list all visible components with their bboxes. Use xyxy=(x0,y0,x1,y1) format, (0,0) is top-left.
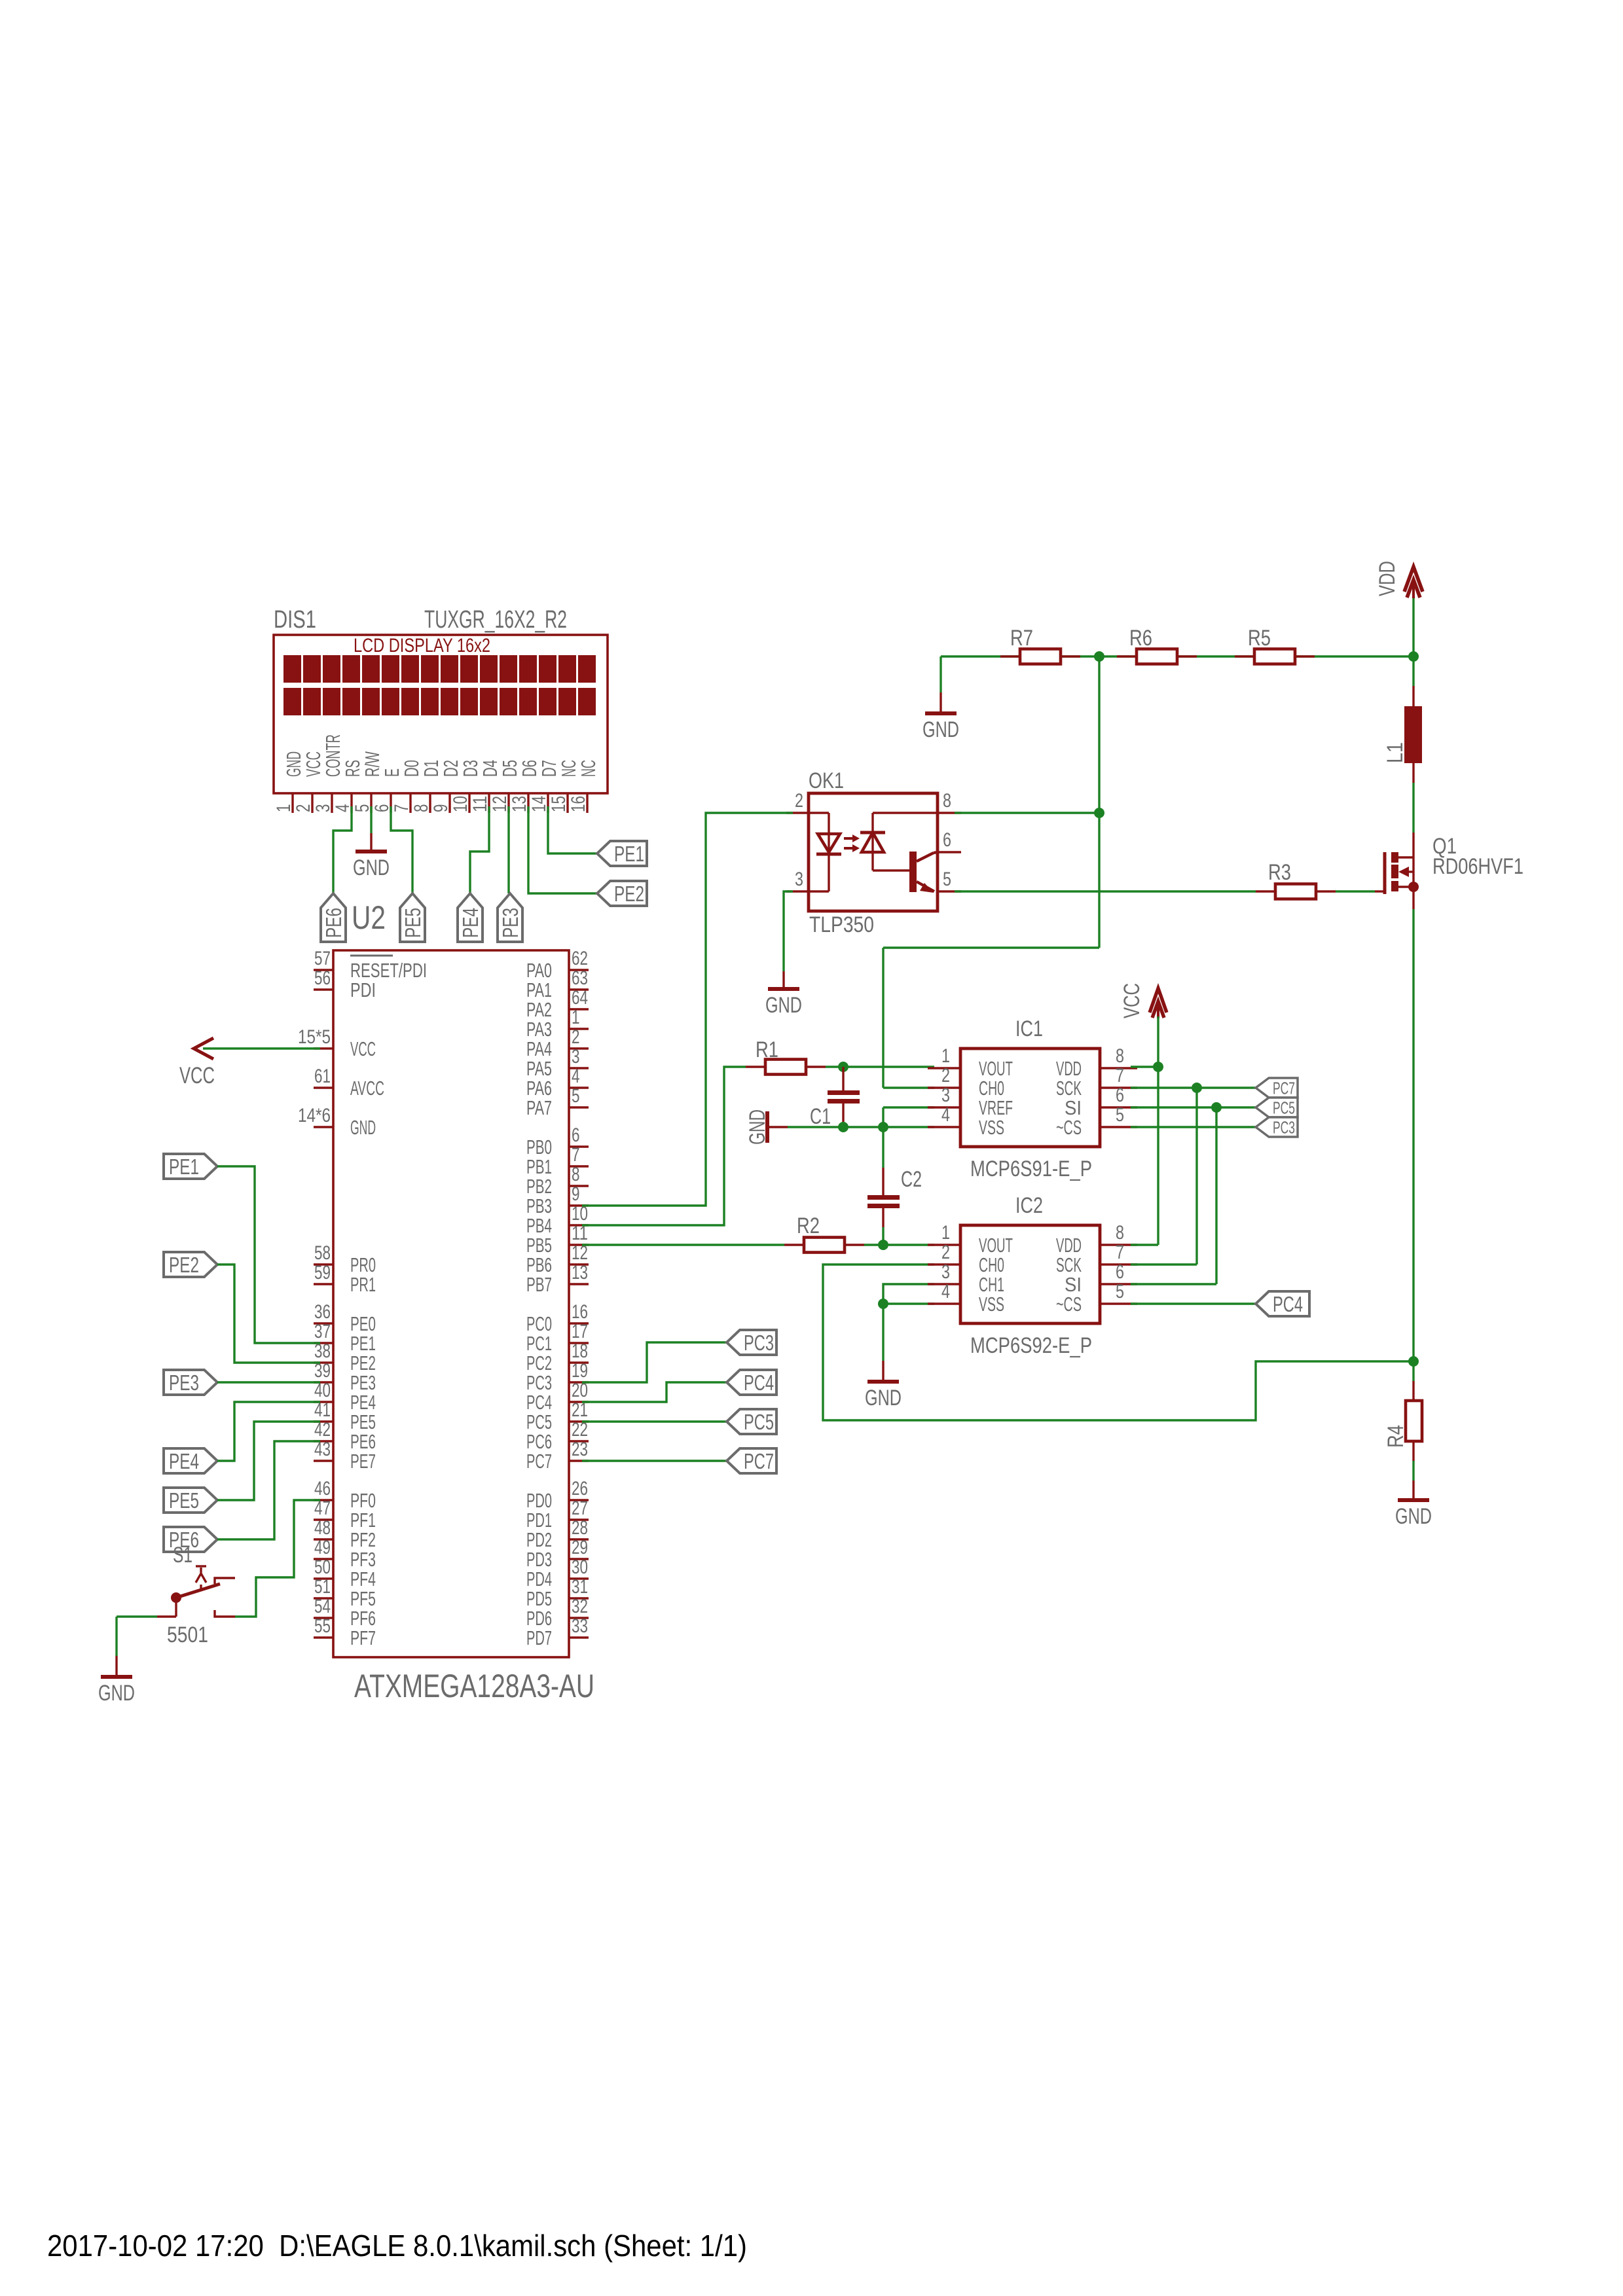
svg-text:R5: R5 xyxy=(1248,626,1271,651)
svg-text:8: 8 xyxy=(572,1164,580,1185)
svg-text:2: 2 xyxy=(293,804,314,813)
svg-text:2: 2 xyxy=(572,1026,580,1048)
svg-text:DIS1: DIS1 xyxy=(274,606,316,634)
svg-text:5: 5 xyxy=(572,1085,580,1107)
svg-text:S1: S1 xyxy=(173,1543,192,1568)
svg-text:TLP350: TLP350 xyxy=(809,912,874,937)
svg-text:49: 49 xyxy=(314,1537,331,1558)
svg-text:7: 7 xyxy=(572,1144,580,1166)
svg-text:GND: GND xyxy=(350,1116,376,1139)
svg-text:PE4: PE4 xyxy=(169,1449,199,1473)
svg-text:OK1: OK1 xyxy=(809,768,844,793)
svg-text:4: 4 xyxy=(941,1281,950,1302)
svg-text:PC7: PC7 xyxy=(526,1450,552,1473)
svg-text:54: 54 xyxy=(314,1596,331,1617)
svg-text:5: 5 xyxy=(1116,1104,1124,1126)
svg-text:6: 6 xyxy=(943,829,951,851)
svg-text:29: 29 xyxy=(572,1537,588,1558)
svg-text:62: 62 xyxy=(572,948,588,969)
svg-text:PE5: PE5 xyxy=(401,908,425,938)
svg-text:VCC: VCC xyxy=(350,1037,376,1060)
svg-text:3: 3 xyxy=(312,804,334,813)
svg-text:PC4: PC4 xyxy=(744,1371,774,1395)
svg-text:MCP6S91-E_P: MCP6S91-E_P xyxy=(970,1157,1092,1181)
svg-text:PC3: PC3 xyxy=(744,1331,774,1355)
svg-text:R4: R4 xyxy=(1383,1425,1408,1448)
svg-text:57: 57 xyxy=(314,948,331,969)
svg-text:1: 1 xyxy=(941,1222,950,1244)
svg-text:1: 1 xyxy=(572,1007,580,1028)
svg-text:9: 9 xyxy=(430,804,452,813)
svg-text:3: 3 xyxy=(795,869,803,890)
svg-text:R7: R7 xyxy=(1010,626,1033,651)
svg-text:U2: U2 xyxy=(352,899,386,936)
svg-text:PC5: PC5 xyxy=(1273,1098,1295,1117)
svg-text:GND: GND xyxy=(1395,1504,1432,1529)
svg-text:NC: NC xyxy=(577,760,600,777)
svg-text:12: 12 xyxy=(489,796,511,812)
svg-text:MCP6S92-E_P: MCP6S92-E_P xyxy=(970,1333,1092,1358)
svg-text:2: 2 xyxy=(941,1065,950,1086)
svg-text:17: 17 xyxy=(572,1321,588,1342)
svg-text:51: 51 xyxy=(314,1576,331,1598)
svg-text:28: 28 xyxy=(572,1517,588,1539)
svg-text:15*5: 15*5 xyxy=(298,1026,331,1048)
svg-text:2: 2 xyxy=(941,1242,950,1263)
svg-text:IC1: IC1 xyxy=(1015,1016,1043,1041)
svg-text:~CS: ~CS xyxy=(1056,1116,1082,1139)
svg-text:PE1: PE1 xyxy=(614,842,644,866)
svg-text:GND: GND xyxy=(745,1109,770,1145)
svg-text:GND: GND xyxy=(865,1386,902,1410)
svg-text:2: 2 xyxy=(795,790,803,812)
svg-text:9: 9 xyxy=(572,1183,580,1205)
svg-text:8: 8 xyxy=(943,790,951,812)
svg-text:~CS: ~CS xyxy=(1056,1293,1082,1316)
svg-text:8: 8 xyxy=(1116,1222,1124,1244)
svg-text:7: 7 xyxy=(1116,1242,1124,1263)
svg-text:10: 10 xyxy=(450,796,471,812)
svg-text:37: 37 xyxy=(314,1321,331,1342)
svg-text:PC7: PC7 xyxy=(1273,1078,1295,1098)
svg-text:PE2: PE2 xyxy=(169,1253,199,1277)
svg-text:50: 50 xyxy=(314,1556,331,1578)
svg-text:4: 4 xyxy=(572,1066,580,1087)
svg-text:6: 6 xyxy=(1116,1261,1124,1283)
svg-text:ATXMEGA128A3-AU: ATXMEGA128A3-AU xyxy=(354,1668,594,1704)
svg-text:48: 48 xyxy=(314,1517,331,1539)
svg-text:23: 23 xyxy=(572,1439,588,1460)
svg-text:13: 13 xyxy=(509,796,530,812)
svg-text:IC2: IC2 xyxy=(1015,1193,1043,1218)
svg-text:2017-10-02 17:20 D:\EAGLE 8.0: 2017-10-02 17:20 D:\EAGLE 8.0.1\kamil.sc… xyxy=(47,2229,747,2263)
svg-text:LCD DISPLAY 16x2: LCD DISPLAY 16x2 xyxy=(354,635,490,656)
svg-text:PR1: PR1 xyxy=(350,1273,376,1296)
svg-text:GND: GND xyxy=(765,993,802,1018)
svg-text:26: 26 xyxy=(572,1478,588,1499)
svg-text:13: 13 xyxy=(572,1262,588,1283)
svg-text:PD7: PD7 xyxy=(526,1626,552,1649)
svg-text:4: 4 xyxy=(332,804,354,813)
svg-text:11: 11 xyxy=(469,796,491,812)
svg-text:1: 1 xyxy=(273,804,295,813)
svg-text:59: 59 xyxy=(314,1262,331,1283)
svg-text:PE1: PE1 xyxy=(169,1155,199,1179)
svg-text:8: 8 xyxy=(1116,1045,1124,1067)
svg-text:C2: C2 xyxy=(901,1167,922,1192)
svg-text:PC7: PC7 xyxy=(744,1449,774,1473)
svg-text:PA7: PA7 xyxy=(526,1096,552,1119)
svg-text:36: 36 xyxy=(314,1301,331,1323)
svg-text:GND: GND xyxy=(98,1681,135,1706)
svg-text:15: 15 xyxy=(548,796,570,812)
svg-text:GND: GND xyxy=(353,855,390,880)
svg-text:VCC: VCC xyxy=(179,1063,215,1088)
svg-text:PC3: PC3 xyxy=(1273,1117,1295,1137)
svg-text:5501: 5501 xyxy=(167,1623,208,1647)
svg-text:27: 27 xyxy=(572,1498,588,1519)
svg-text:R2: R2 xyxy=(797,1213,820,1238)
svg-text:AVCC: AVCC xyxy=(350,1077,384,1100)
svg-text:32: 32 xyxy=(572,1596,588,1617)
svg-text:19: 19 xyxy=(572,1360,588,1382)
svg-text:PB7: PB7 xyxy=(526,1273,552,1296)
svg-text:R6: R6 xyxy=(1129,626,1152,651)
svg-text:30: 30 xyxy=(572,1556,588,1578)
svg-text:PF7: PF7 xyxy=(350,1626,376,1649)
svg-text:55: 55 xyxy=(314,1615,331,1637)
svg-text:VSS: VSS xyxy=(979,1293,1004,1316)
svg-text:16: 16 xyxy=(572,1301,588,1323)
svg-text:PE4: PE4 xyxy=(458,908,483,938)
svg-text:5: 5 xyxy=(1116,1281,1124,1302)
svg-text:5: 5 xyxy=(352,804,373,813)
svg-text:5: 5 xyxy=(943,869,951,890)
svg-text:L1: L1 xyxy=(1383,742,1408,763)
svg-text:TUXGR_16X2_R2: TUXGR_16X2_R2 xyxy=(424,606,567,634)
svg-text:58: 58 xyxy=(314,1242,331,1264)
svg-text:PC4: PC4 xyxy=(1273,1292,1303,1316)
svg-text:61: 61 xyxy=(314,1066,331,1087)
svg-text:PC5: PC5 xyxy=(744,1410,774,1434)
svg-text:PE3: PE3 xyxy=(169,1371,199,1395)
svg-text:VSS: VSS xyxy=(979,1116,1004,1139)
svg-text:4: 4 xyxy=(941,1104,950,1126)
svg-text:R3: R3 xyxy=(1268,860,1291,885)
svg-text:RD06HVF1: RD06HVF1 xyxy=(1432,854,1523,879)
svg-text:PE7: PE7 xyxy=(350,1450,376,1473)
svg-text:PE6: PE6 xyxy=(321,908,346,938)
svg-text:3: 3 xyxy=(941,1261,950,1283)
svg-text:6: 6 xyxy=(572,1124,580,1146)
svg-text:31: 31 xyxy=(572,1576,588,1598)
svg-text:6: 6 xyxy=(371,804,393,813)
svg-text:PE3: PE3 xyxy=(498,908,522,938)
svg-text:16: 16 xyxy=(568,796,589,812)
svg-text:46: 46 xyxy=(314,1478,331,1499)
svg-text:56: 56 xyxy=(314,967,331,989)
svg-text:3: 3 xyxy=(572,1046,580,1067)
svg-text:18: 18 xyxy=(572,1340,588,1362)
svg-text:33: 33 xyxy=(572,1615,588,1637)
svg-text:7: 7 xyxy=(1116,1065,1124,1086)
svg-text:R1: R1 xyxy=(756,1037,778,1062)
svg-text:14: 14 xyxy=(528,796,550,812)
svg-text:64: 64 xyxy=(572,987,588,1009)
svg-text:C1: C1 xyxy=(810,1104,831,1129)
svg-text:PE2: PE2 xyxy=(614,882,644,906)
svg-text:8: 8 xyxy=(410,804,432,813)
svg-text:VCC: VCC xyxy=(1120,983,1144,1018)
svg-text:GND: GND xyxy=(922,717,959,742)
svg-text:PDI: PDI xyxy=(350,978,376,1001)
svg-text:VDD: VDD xyxy=(1375,561,1400,596)
svg-text:7: 7 xyxy=(391,804,412,813)
svg-text:6: 6 xyxy=(1116,1085,1124,1106)
svg-text:PE5: PE5 xyxy=(169,1488,199,1513)
svg-text:63: 63 xyxy=(572,967,588,989)
svg-text:14*6: 14*6 xyxy=(298,1105,331,1126)
svg-text:3: 3 xyxy=(941,1085,950,1106)
svg-text:1: 1 xyxy=(941,1045,950,1067)
